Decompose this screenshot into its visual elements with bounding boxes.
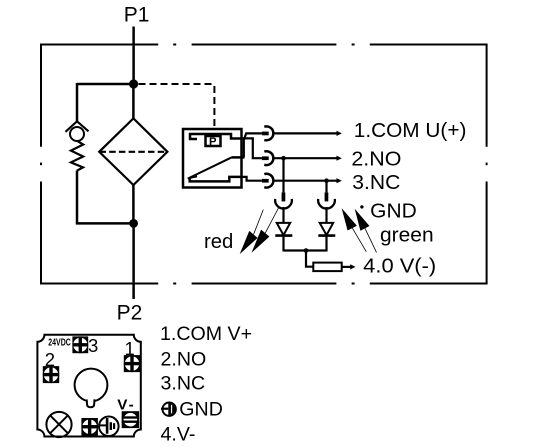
svg-text:1.COM V+: 1.COM V+	[160, 323, 252, 345]
wire node B down to P2	[132, 223, 135, 299]
connector pin green LED	[325, 192, 329, 201]
svg-text:4.V-: 4.V-	[161, 424, 196, 446]
wire join to resistor	[306, 251, 313, 267]
arrow row3	[337, 178, 342, 183]
transducer diamond	[99, 118, 167, 185]
wire red LED to join	[282, 236, 284, 252]
gnd dot	[360, 205, 363, 208]
enclosure boundary chain line: bottom	[41, 283, 487, 285]
wire socket to green LED	[325, 207, 327, 223]
enclosure boundary chain line: right	[486, 44, 488, 285]
svg-text:V-: V-	[117, 397, 135, 414]
wire row2 to arrow	[272, 157, 337, 159]
green light arrow 2	[355, 209, 370, 231]
svg-text:2.NO: 2.NO	[351, 148, 401, 170]
svg-text:P2: P2	[117, 301, 143, 324]
node row3 drop junction	[324, 178, 329, 183]
lamp symbol	[46, 412, 71, 437]
wire LED join rail	[284, 249, 327, 251]
svg-text:4.0 V(-): 4.0 V(-)	[363, 256, 436, 278]
connector face frame	[37, 335, 140, 437]
diamond dashed measuring line	[100, 151, 167, 153]
adjusting bulb	[75, 369, 108, 402]
terminal V-	[122, 411, 139, 428]
bottom centre terminal	[81, 418, 98, 436]
earth terminal circle	[99, 417, 119, 437]
enclosure boundary chain line: left	[40, 44, 42, 285]
wire spring to bottom rail	[76, 171, 79, 225]
wire left branch down to check valve	[76, 83, 79, 122]
wire node A to diamond top	[132, 84, 135, 119]
check valve seat	[66, 121, 89, 132]
svg-text:P: P	[209, 136, 217, 148]
connector pin row1	[262, 132, 269, 136]
switch common rail	[190, 134, 242, 139]
wire row3 drop to green LED socket	[325, 181, 327, 193]
node join junction	[304, 248, 309, 253]
wire node A to left branch	[77, 83, 134, 86]
terminal 2	[43, 366, 59, 383]
connector pin row3	[262, 179, 269, 183]
connector socket row3	[264, 174, 273, 188]
svg-text:GND: GND	[370, 200, 417, 222]
check valve ball	[70, 127, 84, 141]
connector socket row1	[264, 126, 273, 140]
red light arrow 1	[240, 231, 258, 254]
switch lever exit wire	[232, 156, 245, 159]
earth bullet	[161, 402, 176, 416]
switch lever	[188, 157, 232, 178]
wire row2 drop to red LED socket	[282, 158, 284, 192]
terminal 1	[124, 355, 140, 372]
svg-text:GND: GND	[179, 398, 223, 420]
green light arrow 1	[342, 208, 357, 230]
red LED D1	[277, 223, 291, 235]
switch NC fixed contact bracket	[190, 177, 242, 182]
wire bottom rail to node B	[76, 222, 134, 225]
svg-text:3: 3	[88, 335, 98, 356]
dashed pilot line horizontal	[139, 83, 215, 85]
spring	[71, 141, 83, 171]
connector pin row2	[262, 156, 269, 160]
green LED D2	[320, 223, 334, 235]
terminal 3	[72, 336, 88, 353]
wire rail exit down to row2	[242, 138, 262, 158]
wire row3 to arrow	[272, 180, 337, 182]
switch lever barb	[188, 175, 198, 179]
svg-text:24VDC: 24VDC	[48, 338, 71, 349]
red light arrow 2	[252, 230, 270, 253]
resistor R1	[313, 263, 341, 272]
wire green LED to join	[325, 236, 327, 252]
svg-text:3.NC: 3.NC	[352, 172, 400, 194]
wire diamond bottom to node B	[132, 185, 135, 224]
connector socket red LED	[275, 199, 292, 209]
svg-text:red: red	[204, 231, 233, 253]
pressure switch box S1	[183, 129, 242, 188]
connector socket green LED	[318, 199, 335, 209]
connector pin red LED	[282, 192, 286, 201]
svg-text:1.COM U(+): 1.COM U(+)	[354, 120, 467, 142]
svg-text:green: green	[380, 224, 434, 246]
enclosure boundary chain line: top	[41, 44, 487, 46]
arrow row1	[337, 131, 342, 136]
connector socket row2	[264, 151, 273, 165]
wire box exit down to row3	[242, 177, 262, 181]
node A junction dot	[129, 79, 138, 88]
wire P1 to node A	[132, 27, 135, 85]
wire lever exit up to row1	[244, 133, 262, 157]
svg-text:2.NO: 2.NO	[161, 349, 207, 371]
wire socket to red LED	[282, 207, 284, 223]
wire row1 to arrow	[272, 132, 337, 134]
wire resistor to arrow	[342, 266, 351, 268]
arrow 4.0V	[350, 264, 355, 269]
arrow row2	[337, 156, 342, 161]
node B junction dot	[129, 219, 138, 228]
dashed pilot line vertical	[213, 86, 215, 129]
svg-text:P1: P1	[124, 3, 150, 26]
P actuator box	[206, 136, 221, 146]
node row2 drop junction	[281, 156, 286, 161]
svg-text:3.NC: 3.NC	[161, 373, 206, 395]
